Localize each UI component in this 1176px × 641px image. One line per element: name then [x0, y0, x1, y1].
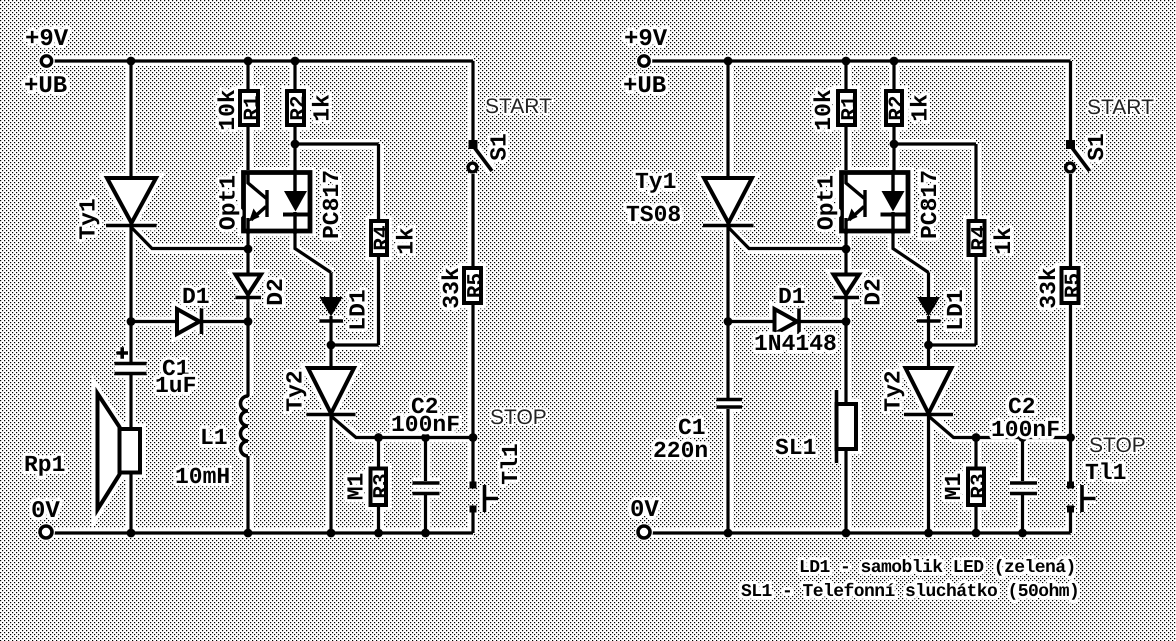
switch S1 hinge square (left) — [469, 140, 478, 149]
svg-text:D1: D1 — [182, 284, 210, 310]
svg-text:100nF: 100nF — [391, 412, 460, 438]
svg-text:Opt1: Opt1 — [814, 175, 840, 230]
svg-text:1uF: 1uF — [155, 373, 196, 399]
svg-text:1k: 1k — [908, 94, 934, 122]
svg-text:Tl1: Tl1 — [1085, 460, 1126, 486]
svg-text:0V: 0V — [31, 498, 60, 525]
svg-text:+9V: +9V — [25, 26, 69, 53]
svg-text:Ty1: Ty1 — [76, 198, 102, 239]
svg-text:R3: R3 — [969, 473, 992, 498]
junction dots right — [724, 57, 1075, 538]
svg-text:STOP: STOP — [490, 406, 547, 429]
svg-text:TS08: TS08 — [626, 202, 681, 228]
phototransistor emitter arrow (left) — [249, 209, 260, 222]
bars and plates left — [106, 147, 498, 512]
svg-text:R4: R4 — [372, 225, 395, 250]
svg-text:M1: M1 — [941, 473, 967, 501]
optocoupler boxes — [244, 173, 909, 232]
wires right — [651, 61, 1071, 533]
svg-text:L1: L1 — [200, 425, 228, 451]
svg-text:R2: R2 — [887, 95, 910, 120]
svg-text:R2: R2 — [288, 95, 311, 120]
svg-text:Tl1: Tl1 — [498, 443, 524, 484]
svg-text:START: START — [485, 95, 552, 118]
pushbutton Tl1 contact tips (right) — [1067, 482, 1074, 489]
LED LD1 (right, filled) — [917, 297, 940, 317]
svg-text:M1: M1 — [344, 473, 370, 501]
wire black strokes — [54, 61, 1071, 533]
svg-text:0V: 0V — [630, 497, 659, 524]
svg-text:10mH: 10mH — [175, 464, 230, 490]
wires left — [54, 61, 473, 533]
component bodies — [98, 91, 1079, 510]
svg-text:R4: R4 — [969, 225, 992, 250]
svg-text:SL1: SL1 — [775, 435, 816, 461]
svg-text:+UB: +UB — [623, 73, 666, 100]
svg-text:PC817: PC817 — [319, 170, 345, 239]
switch S1 contact circle (right) — [1066, 163, 1075, 172]
svg-text:10k: 10k — [811, 89, 837, 131]
svg-text:10k: 10k — [215, 89, 241, 131]
optocoupler U1 internals (left) — [248, 170, 295, 234]
svg-text:+UB: +UB — [24, 73, 67, 100]
opto LED (right, filled) — [882, 191, 905, 212]
svg-text:1k: 1k — [394, 227, 420, 255]
svg-text:Ty1: Ty1 — [635, 169, 676, 195]
phototransistor emitter arrow (right) — [847, 209, 858, 222]
svg-text:D2: D2 — [861, 278, 887, 306]
opto LED (left, filled) — [284, 191, 307, 212]
svg-text:SL1 - Telefonní sluchátko (50o: SL1 - Telefonní sluchátko (50ohm) — [741, 582, 1079, 602]
white halos under wires and bars — [54, 61, 1096, 533]
svg-text:220n: 220n — [653, 438, 708, 464]
bars and plates right — [703, 147, 1096, 512]
svg-text:R5: R5 — [1063, 273, 1086, 298]
terminal 0V (left) — [38, 524, 53, 539]
opto LED cathode bar (left) — [283, 213, 309, 217]
svg-text:LD1: LD1 — [346, 289, 372, 330]
svg-text:33k: 33k — [439, 267, 465, 309]
svg-text:LD1: LD1 — [943, 289, 969, 330]
svg-text:D1: D1 — [778, 284, 806, 310]
junction dots left — [127, 57, 478, 538]
svg-text:1N4148: 1N4148 — [754, 331, 837, 357]
svg-text:1k: 1k — [991, 227, 1017, 255]
svg-text:Ty2: Ty2 — [881, 370, 907, 411]
svg-text:Opt1: Opt1 — [216, 175, 242, 230]
white halos under component bodies — [98, 91, 1079, 510]
svg-text:R1: R1 — [839, 95, 862, 120]
switch S1 contact circle (left) — [468, 163, 477, 172]
svg-text:Rp1: Rp1 — [24, 452, 65, 478]
svg-text:START: START — [1087, 96, 1154, 119]
svg-text:R5: R5 — [465, 273, 488, 298]
svg-text:S1: S1 — [1084, 133, 1110, 161]
svg-text:PC817: PC817 — [917, 170, 943, 239]
optocoupler U1 internals (right) — [846, 170, 893, 234]
svg-text:R1: R1 — [242, 95, 265, 120]
switch S1 hinge square (right) — [1066, 140, 1075, 149]
terminal +9V/+UB (left) — [40, 54, 54, 68]
svg-text:D2: D2 — [263, 278, 289, 306]
svg-text:Ty2: Ty2 — [283, 370, 309, 411]
svg-text:1k: 1k — [310, 94, 336, 122]
svg-text:33k: 33k — [1036, 267, 1062, 309]
terminal +9V/+UB (right) — [637, 54, 651, 68]
svg-text:STOP: STOP — [1089, 434, 1146, 457]
svg-text:LD1 - samoblik LED (zelená): LD1 - samoblik LED (zelená) — [799, 558, 1076, 578]
LED LD1 (left, filled) — [320, 297, 343, 317]
svg-text:+9V: +9V — [624, 26, 668, 53]
pushbutton Tl1 contact tips (left) — [470, 482, 477, 489]
svg-text:R3: R3 — [371, 473, 394, 498]
terminal 0V (right) — [636, 524, 651, 539]
svg-text:100nF: 100nF — [991, 417, 1060, 443]
opto LED cathode bar (right) — [881, 213, 907, 217]
svg-text:S1: S1 — [487, 133, 513, 161]
